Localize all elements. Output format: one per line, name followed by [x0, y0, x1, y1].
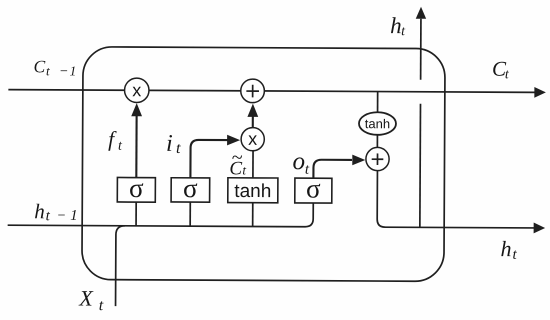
- svg-text:σ: σ: [183, 173, 198, 203]
- node plus circle (output): [366, 147, 389, 170]
- wire plus circle down to h_t output: [377, 171, 385, 227]
- svg-text:h: h: [390, 13, 402, 38]
- svg-text:f: f: [108, 127, 117, 151]
- svg-text:t: t: [505, 67, 510, 82]
- wire input-gate elbow sigma2 to x-circle (i_t): [190, 140, 228, 178]
- svg-text:i: i: [166, 131, 173, 157]
- wire sigma1 bottom stub: [135, 202, 137, 226]
- wire tanh oval to plus circle: [376, 135, 378, 148]
- label i_t: [166, 131, 181, 157]
- wire h_t branch up (with gap crossing C line): [419, 104, 422, 228]
- wire h_t output line to the right: [385, 226, 534, 229]
- label C_t-1: [33, 56, 76, 79]
- arrowhead C_t output: [534, 87, 546, 98]
- wire forget-gate arrow sigma1 to x-circle: [135, 111, 137, 177]
- svg-text:h: h: [34, 199, 45, 223]
- label h_t bottom right: [500, 236, 517, 263]
- LSTM cell boundary box: [82, 47, 445, 282]
- svg-text:o: o: [292, 148, 305, 175]
- svg-text:t: t: [46, 63, 50, 78]
- gate sigma3 (output gate): [295, 174, 332, 204]
- svg-text:t: t: [99, 297, 104, 314]
- label C-tilde_t: [229, 147, 246, 180]
- svg-text:1: 1: [70, 208, 78, 224]
- svg-text:σ: σ: [129, 173, 144, 203]
- svg-text:x: x: [132, 80, 141, 100]
- node tanh oval: [359, 112, 396, 135]
- svg-text:~: ~: [231, 147, 242, 169]
- wire tanh box top stub to x2-circle: [252, 151, 254, 178]
- svg-text:tanh: tanh: [365, 116, 390, 131]
- svg-text:C: C: [33, 56, 45, 76]
- node x2 multiply circle (input gate): [241, 128, 264, 151]
- svg-text:t: t: [512, 247, 517, 263]
- svg-text:t: t: [401, 24, 406, 39]
- svg-text:−: −: [59, 64, 69, 79]
- label C_t right: [492, 57, 510, 83]
- wire x2-circle to plus-circle arrow: [252, 115, 254, 128]
- wire output-gate elbow sigma3 to plus-circle (o_t): [313, 160, 352, 179]
- wire X_t riser joining h rail: [116, 226, 125, 306]
- svg-text:tanh: tanh: [234, 181, 271, 202]
- node x1 multiply circle (forget): [124, 78, 149, 103]
- gate tanh box (candidate): [228, 178, 278, 203]
- label X_t: [78, 285, 104, 314]
- wire C line (cell state, left to right): [8, 90, 534, 93]
- svg-text:x: x: [248, 129, 257, 149]
- wire h rail (h_t-1 input rail along bottom of gates, curving up into sigma3): [8, 202, 314, 227]
- svg-text:t: t: [118, 139, 123, 154]
- svg-text:h: h: [500, 236, 511, 261]
- gate sigma1 (forget gate): [117, 173, 155, 203]
- label o_t: [292, 148, 310, 178]
- label h_t top: [390, 13, 406, 39]
- svg-text:X: X: [78, 285, 94, 310]
- svg-text:1: 1: [69, 63, 76, 78]
- svg-text:σ: σ: [306, 174, 321, 204]
- svg-text:−: −: [57, 209, 67, 224]
- svg-text:t: t: [242, 162, 246, 177]
- arrowhead h_t output right: [534, 223, 546, 234]
- wire tanh box bottom stub: [252, 203, 254, 227]
- wire C branch down to tanh oval: [377, 92, 379, 113]
- label f_t: [108, 127, 123, 154]
- arrowhead h_t up: [416, 7, 426, 19]
- wire sigma2 bottom stub: [189, 202, 191, 226]
- node plus circle on C line: [241, 79, 265, 103]
- gate sigma2 (input gate): [171, 173, 210, 203]
- svg-text:t: t: [46, 208, 51, 224]
- label h_t-1: [34, 199, 78, 224]
- svg-text:t: t: [176, 140, 181, 157]
